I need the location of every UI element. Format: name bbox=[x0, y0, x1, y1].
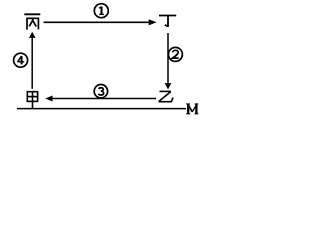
node 乙 (bottom-right) bbox=[159, 91, 174, 101]
label M bbox=[186, 104, 198, 114]
label circled 1 bbox=[94, 4, 108, 18]
node 丁 (top-right) bbox=[159, 16, 176, 27]
node 丙 (top-left) bbox=[24, 14, 40, 29]
wire arrow 2: 丁 down to 乙 (right vertical, arrowhead down) bbox=[165, 33, 172, 90]
node 甲 (bottom-left) bbox=[27, 92, 37, 109]
label circled 2 bbox=[168, 47, 182, 61]
label circled 4 bbox=[14, 53, 28, 67]
wire arrow 4: 甲 up to 丙 (left vertical, arrowhead up) bbox=[29, 32, 36, 89]
label circled 3 bbox=[94, 85, 107, 98]
wire arrow 1: 丙 to 丁 (top horizontal, arrowhead right) bbox=[44, 19, 157, 25]
wire: baseline to M bbox=[17, 108, 186, 110]
wire arrow 3: 乙 to 甲 (bottom horizontal, arrowhead left) bbox=[45, 96, 156, 102]
